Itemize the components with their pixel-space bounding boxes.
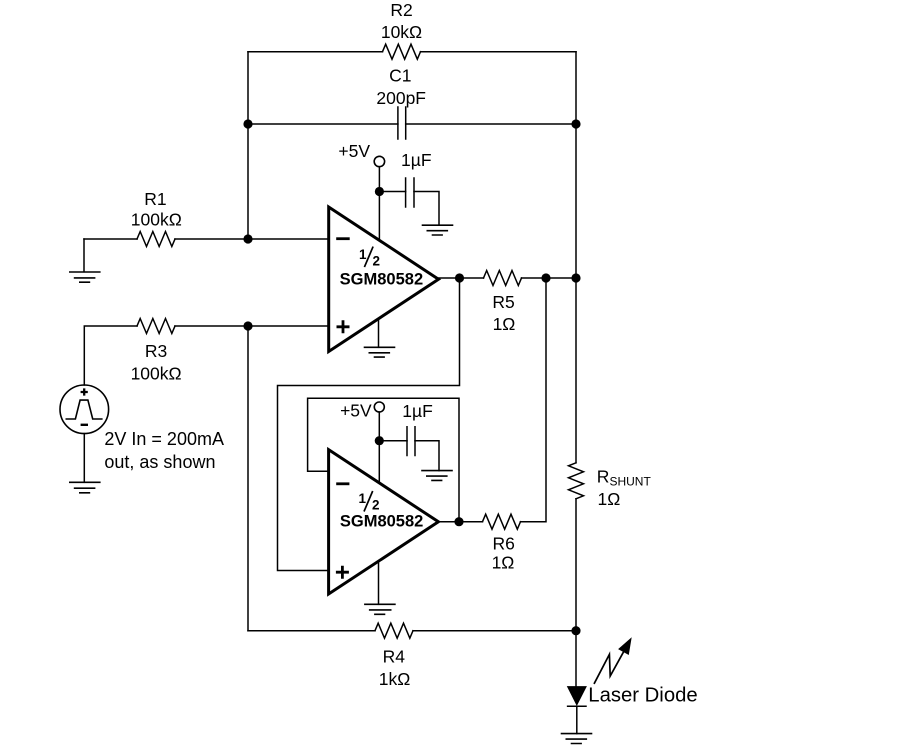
svg-text:R5: R5 [492, 292, 514, 312]
junction node R5/R6 [541, 273, 550, 282]
resistor R1 [137, 232, 175, 247]
resistor R4 [375, 623, 413, 638]
svg-text:1Ω: 1Ω [492, 553, 515, 573]
pulse source plus [81, 388, 88, 395]
wire R5 right to node [522, 277, 577, 279]
wire U2 feedback box (output to inverting input) [308, 398, 459, 521]
wire R1 right to inverting input [175, 238, 329, 240]
ground under pulse source [70, 482, 100, 493]
U1 plus input symbol [337, 320, 350, 333]
junction node C1 left [243, 119, 252, 128]
wire R4 right to laser node [413, 630, 576, 632]
junction node U2 output [454, 517, 463, 526]
U2 plus input symbol [336, 566, 349, 579]
U2 minus input symbol [336, 482, 349, 485]
wire pulse source to ground [83, 434, 85, 483]
svg-text:2: 2 [372, 498, 380, 513]
svg-text:Laser Diode: Laser Diode [588, 684, 697, 706]
svg-text:1µF: 1µF [401, 150, 432, 170]
svg-text:R3: R3 [145, 341, 167, 361]
resistor R6 [483, 514, 521, 529]
U1 minus input symbol [336, 237, 350, 240]
resistor R5 [484, 271, 522, 286]
junction node +5V U1 [375, 187, 384, 196]
svg-text:R2: R2 [390, 0, 412, 20]
svg-text:R4: R4 [383, 647, 406, 667]
svg-text:1: 1 [359, 247, 367, 262]
svg-text:+5V: +5V [338, 141, 370, 161]
capacitor 1uF U2 plates [407, 427, 415, 456]
wire C1 right [406, 123, 576, 125]
wire bypass cap left U2 [379, 440, 407, 442]
junction node inverting input U1 [243, 234, 252, 243]
wire R3 right to non-inverting input [175, 325, 329, 327]
laser diode D1 [568, 687, 586, 704]
pulse source V1 circle [60, 385, 109, 434]
junction node U1 output [455, 273, 464, 282]
+5V terminal circle U1 [374, 156, 384, 166]
svg-text:1kΩ: 1kΩ [379, 669, 411, 689]
svg-text:R1: R1 [144, 189, 166, 209]
svg-text:1Ω: 1Ω [493, 314, 516, 334]
resistor R2 [383, 44, 421, 59]
wire R2 right to output column [421, 51, 577, 53]
pulse source minus [81, 424, 88, 426]
wire bypass cap right to ground U2 [415, 441, 439, 471]
svg-text:R6: R6 [493, 534, 515, 554]
ground under U1 [378, 319, 380, 348]
wire U2 output to R6 [438, 521, 482, 523]
junction node C1 right [571, 119, 580, 128]
svg-text:1µF: 1µF [402, 401, 433, 421]
+5V terminal circle U2 [374, 402, 384, 412]
ground under U2 [378, 561, 380, 604]
svg-text:out, as shown: out, as shown [104, 452, 215, 472]
ground bypass U1 [423, 225, 453, 235]
resistor R3 [137, 319, 175, 334]
junction node +5V U2 [375, 436, 384, 445]
capacitor 1uF U1 plates [406, 178, 414, 207]
wire bypass cap right to ground U1 [414, 192, 439, 226]
svg-text:100kΩ: 100kΩ [131, 364, 182, 384]
wire +5V supply pin U1 [378, 167, 380, 240]
junction node R_SHUNT top [571, 273, 580, 282]
ground under laser diode [562, 734, 592, 744]
wire top loop left segment (node IN- to R2 left) [248, 51, 383, 53]
wire R_SHUNT down to laser diode [575, 499, 577, 687]
wire R6 right and up to R5 node [521, 278, 547, 522]
laser diode cathode bar [568, 705, 586, 707]
junction node laser anode [571, 626, 580, 635]
svg-text:SGM80582: SGM80582 [340, 271, 423, 289]
wire left vertical (R2/C1 left to inverting input node) [247, 52, 249, 239]
ground under R1 [83, 239, 85, 272]
laser light arrow [594, 651, 623, 683]
svg-text:10kΩ: 10kΩ [381, 22, 422, 42]
op-amp U1 triangle [329, 207, 439, 352]
wire U1 output down and around to U2 non-inverting input [278, 278, 460, 571]
ground bypass U2 [422, 471, 452, 481]
svg-text:200pF: 200pF [376, 88, 426, 108]
svg-text:1: 1 [359, 491, 367, 506]
wire U1 output to R5 [439, 277, 484, 279]
wire +5V supply pin U2 [378, 412, 380, 483]
wire bypass cap left U1 [379, 191, 405, 193]
svg-text:1Ω: 1Ω [598, 489, 621, 509]
wire laser diode to ground [576, 706, 578, 733]
op-amp U2 triangle [329, 450, 439, 594]
wire R1 left to ground [84, 238, 137, 240]
resistor R_SHUNT [569, 463, 584, 499]
svg-text:2V In = 200mA: 2V In = 200mA [104, 429, 224, 449]
wire C1 left [248, 123, 398, 125]
wire R4 bottom left [248, 630, 375, 632]
svg-text:SGM80582: SGM80582 [340, 513, 423, 531]
junction node non-inverting input U1 [243, 321, 252, 330]
capacitor C1 plates [398, 107, 406, 139]
svg-text:+5V: +5V [340, 401, 372, 421]
wire left vertical (non-inverting node down to R4) [247, 326, 249, 631]
svg-text:100kΩ: 100kΩ [131, 210, 182, 230]
svg-text:C1: C1 [389, 66, 411, 86]
wire right vertical (output column down to R_SHUNT) [575, 52, 577, 463]
svg-text:2: 2 [372, 253, 380, 268]
svg-text:RSHUNT: RSHUNT [597, 466, 652, 488]
wire pulse source to R3 [84, 326, 137, 385]
pulse source waveform [66, 400, 102, 419]
